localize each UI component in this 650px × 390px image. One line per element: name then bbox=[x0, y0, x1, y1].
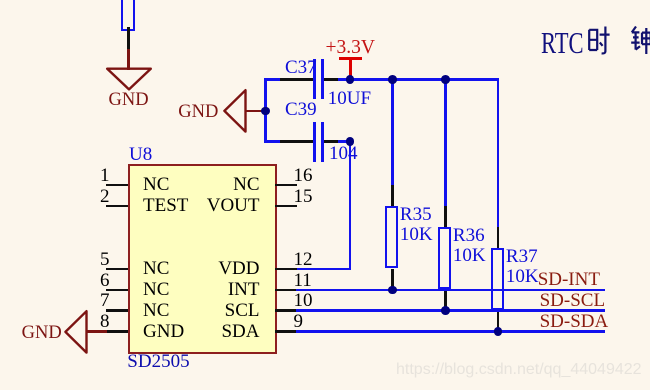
resistor R36 bbox=[438, 227, 451, 290]
net label SD-SCL bbox=[540, 291, 605, 310]
wire (R37 bottom pin stub) bbox=[497, 310, 500, 331]
IC U8 body (SD2505) bbox=[128, 164, 277, 355]
pin name NC (pin 1) bbox=[143, 175, 169, 194]
pin 9 bbox=[275, 330, 297, 333]
value 104 (C39) bbox=[329, 144, 358, 163]
pin name SCL (pin 10) bbox=[225, 301, 260, 320]
node A (junction on capacitor branch) bbox=[261, 107, 270, 116]
pin 10 bbox=[275, 309, 297, 312]
title glyph 钟 bbox=[630, 25, 650, 56]
wire (R35 top pin stub) bbox=[391, 185, 394, 206]
wire (net SD-SCL, pin 10) bbox=[296, 309, 605, 312]
pin name TEST (pin 2) bbox=[143, 196, 188, 215]
wire (to ground) bbox=[127, 49, 130, 70]
pin 2 bbox=[106, 205, 128, 208]
pin 16 bbox=[275, 184, 297, 187]
designator U8 bbox=[129, 145, 152, 164]
wire (rail down to R35) bbox=[391, 78, 394, 185]
node E (rail junction to R36) bbox=[441, 75, 450, 84]
pin name NC (pin 16) bbox=[233, 175, 259, 194]
pin 11 bbox=[275, 289, 297, 292]
label GND (top-left) bbox=[109, 91, 149, 110]
power +3.3V bar symbol bbox=[339, 57, 362, 60]
pin 5 bbox=[106, 268, 128, 271]
pin 1 bbox=[106, 184, 128, 187]
value 10K (R37) bbox=[506, 267, 539, 286]
value 10K (R35) bbox=[400, 225, 433, 244]
pin 6 bbox=[106, 289, 128, 292]
power +3.3V label bbox=[326, 38, 375, 58]
pin name NC (pin 7) bbox=[143, 301, 169, 320]
wire (horizontal into pin 12 VDD) bbox=[296, 268, 351, 271]
wire (R35 bottom pin stub) bbox=[391, 269, 394, 290]
label R37 bbox=[506, 247, 538, 266]
net label SD-INT bbox=[538, 270, 600, 289]
wire (rail corner down to R37) bbox=[497, 78, 500, 227]
wire (vertical to VDD pin) bbox=[349, 140, 352, 270]
label C39 bbox=[285, 100, 317, 119]
node D (rail junction to R35) bbox=[388, 75, 397, 84]
wire (C39 left pin stub) bbox=[280, 140, 314, 143]
node F (R35 to SD-INT line) bbox=[388, 286, 397, 295]
resistor R35 bbox=[385, 206, 398, 269]
value SD2505 (U8) bbox=[127, 352, 189, 371]
pin name VOUT (pin 15) bbox=[207, 196, 260, 215]
value 10UF (C37) bbox=[328, 89, 371, 108]
capacitor C37 bbox=[313, 59, 316, 99]
wire (top +3.3V rail) bbox=[350, 78, 499, 81]
wire (R36 bottom pin stub) bbox=[444, 289, 447, 310]
pin 7 bbox=[106, 309, 128, 312]
pin name INT (pin 11) bbox=[228, 280, 260, 299]
pin name GND (pin 8) bbox=[143, 322, 184, 341]
label GND (bottom-left) bbox=[22, 324, 62, 343]
wire (power stem) bbox=[349, 57, 352, 79]
resistor R37 bbox=[491, 248, 504, 311]
label R35 bbox=[400, 205, 432, 224]
wire (C37 to +3.3V node) bbox=[338, 78, 350, 81]
pin name NC (pin 5) bbox=[143, 259, 169, 278]
ground (top-left GND symbol) bbox=[104, 66, 154, 92]
ground (GND symbol at pin 8) bbox=[62, 308, 90, 356]
pin 8 bbox=[106, 330, 128, 333]
title glyph 时 bbox=[587, 25, 611, 56]
capacitor C39 bbox=[313, 122, 316, 162]
wire (R36 top pin stub) bbox=[444, 206, 447, 227]
watermark bbox=[396, 362, 642, 378]
wire (left vertical joining C37/C39) bbox=[264, 78, 267, 143]
wire (R37 top pin stub) bbox=[497, 227, 500, 248]
wire (C37 left pin stub) bbox=[280, 78, 314, 81]
node H (R37 to SD-SDA line) bbox=[494, 327, 503, 336]
wire (ground to node A) bbox=[245, 110, 263, 113]
label R36 bbox=[453, 226, 485, 245]
wire (toward C39 left plate) bbox=[264, 140, 281, 143]
wire (net SD-INT, pin 11) bbox=[296, 289, 605, 292]
wire (C39 right pin stub) bbox=[324, 140, 338, 143]
label GND (left of capacitors) bbox=[178, 103, 218, 122]
node G (R36 to SD-SCL line) bbox=[441, 306, 450, 315]
wire (rail down to R36) bbox=[444, 78, 447, 206]
wire (toward C37 left plate) bbox=[264, 78, 281, 81]
wire (ground to pin 8) bbox=[86, 330, 107, 333]
pin 15 bbox=[275, 205, 297, 208]
wire (net SD-SDA, pin 9) bbox=[296, 330, 605, 333]
pin name VDD (pin 12) bbox=[218, 259, 259, 278]
label C37 bbox=[285, 58, 317, 77]
pin 12 bbox=[275, 268, 297, 271]
value 10K (R36) bbox=[453, 246, 486, 265]
pin name SDA (pin 9) bbox=[221, 322, 259, 341]
net label SD-SDA bbox=[540, 312, 609, 331]
node B (+3.3V junction) bbox=[346, 75, 355, 84]
wire (C39 to VDD vertical) bbox=[338, 140, 350, 143]
wire (resistor bottom pin stub) bbox=[127, 27, 130, 49]
node C (C39 / VDD junction) bbox=[346, 137, 355, 146]
pin name NC (pin 6) bbox=[143, 280, 169, 299]
ground (GND symbol left of C37/C39) bbox=[221, 87, 249, 135]
wire (C37 right pin stub) bbox=[324, 78, 338, 81]
resistor R? (partial body at top edge) bbox=[121, 0, 136, 31]
title text RTC bbox=[541, 28, 584, 59]
